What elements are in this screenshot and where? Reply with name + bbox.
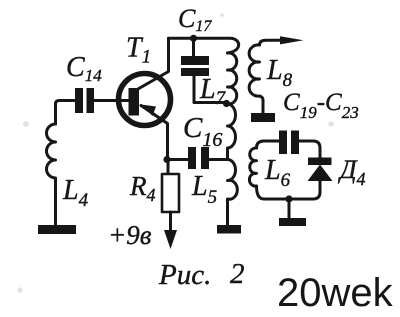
svg-text:Рис.: Рис.	[158, 259, 211, 291]
svg-text:+9в: +9в	[108, 220, 152, 250]
svg-text:20wek: 20wek	[277, 271, 394, 315]
svg-text:2: 2	[230, 258, 245, 290]
